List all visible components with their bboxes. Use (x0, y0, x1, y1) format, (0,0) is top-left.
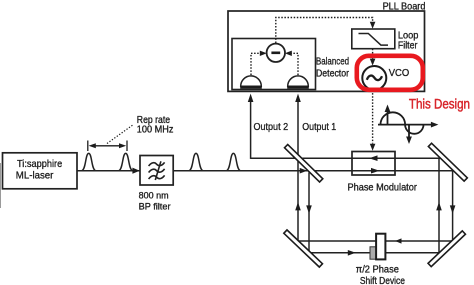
svg-text:Ti:sapphire: Ti:sapphire (17, 158, 62, 170)
svg-text:BP filter: BP filter (139, 201, 171, 212)
svg-text:ML-laser: ML-laser (16, 169, 54, 181)
svg-text:Balanced: Balanced (316, 57, 349, 68)
svg-text:PLL Board: PLL Board (383, 0, 426, 12)
svg-text:Shift Device: Shift Device (360, 276, 405, 285)
svg-text:Detector: Detector (316, 69, 350, 80)
svg-text:800 nm: 800 nm (139, 191, 169, 202)
svg-text:π/2 Phase: π/2 Phase (356, 265, 400, 276)
svg-text:Filter: Filter (398, 41, 418, 52)
svg-text:VCO: VCO (389, 67, 410, 79)
svg-text:Phase Modulator: Phase Modulator (348, 182, 418, 193)
svg-text:100 MHz: 100 MHz (137, 124, 174, 135)
svg-text:Output 2: Output 2 (254, 122, 289, 133)
svg-text:This Design: This Design (409, 96, 470, 111)
svg-text:Output 1: Output 1 (302, 122, 336, 133)
